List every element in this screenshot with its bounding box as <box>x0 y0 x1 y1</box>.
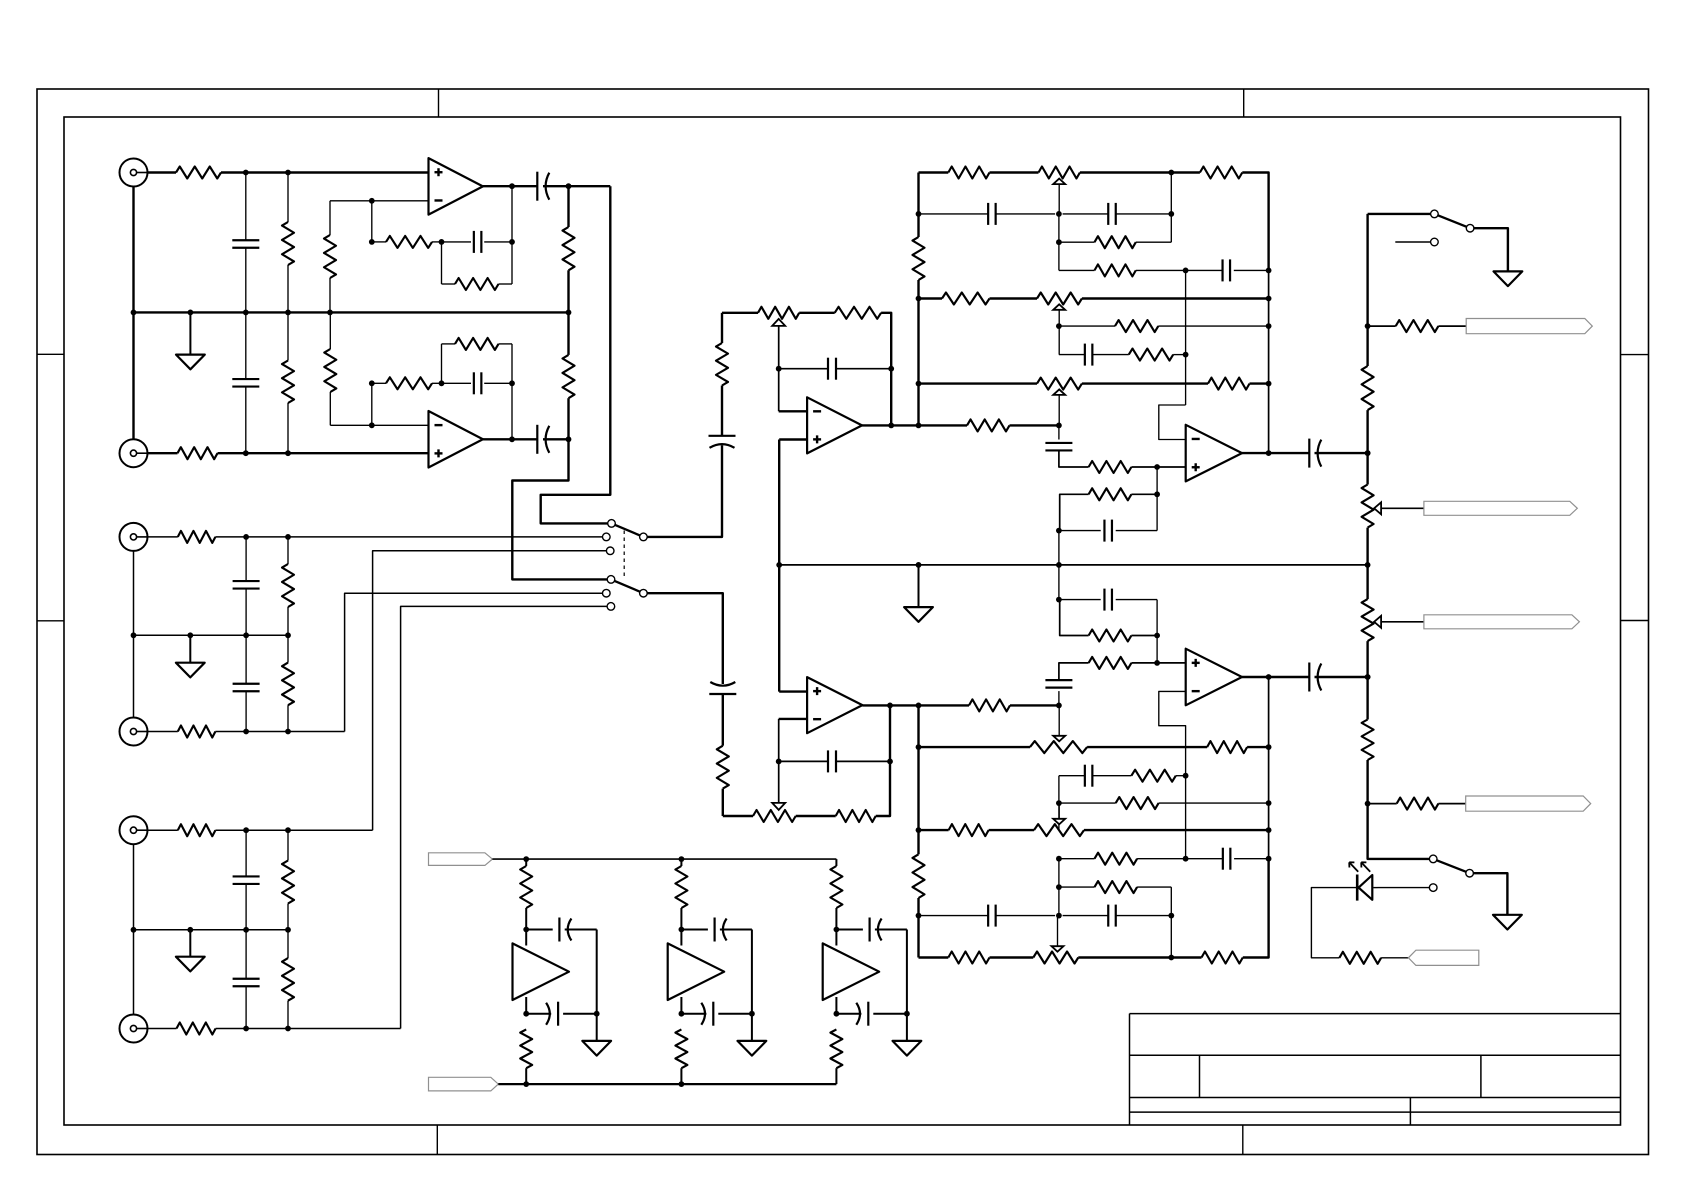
wire buffer 1 out stub <box>525 997 527 1014</box>
wire RV7 wiper stem <box>1058 803 1060 819</box>
wire U4 + column <box>1156 467 1158 531</box>
wire C14 row <box>779 760 890 762</box>
ground channel 3 <box>176 930 205 972</box>
wire R3 top <box>329 201 331 235</box>
wire C10 top <box>245 930 247 979</box>
junction dots row2 <box>1056 211 1174 217</box>
potentiometer RV1 <box>758 307 799 319</box>
junction dot row1 at B <box>1168 170 1174 176</box>
LED D1 triangle <box>1359 875 1373 900</box>
wire R23 to EQ <box>1010 424 1059 426</box>
wire R28 to RV3 <box>990 171 1039 173</box>
wiper RV4 <box>1053 304 1065 310</box>
border zone tick top-right <box>1243 89 1245 117</box>
junction dot buffer 1 in <box>523 927 529 933</box>
wire C9 bottom <box>245 884 247 930</box>
wire SW1 B common to C13 <box>647 593 723 684</box>
junction dot out1 top <box>566 183 572 189</box>
capacitor C29 polarized <box>559 918 571 942</box>
wire U6 output row <box>862 704 969 706</box>
junction dot buffer 3 in <box>834 927 840 933</box>
EQ A column caps lower <box>1058 691 1060 705</box>
wire ch1 lower route to switch <box>512 439 607 579</box>
wire buffer 3 in stub <box>835 930 837 946</box>
resistor R55 buffer 2 bottom <box>675 1029 687 1068</box>
switch SW1 section B throw 3 contact <box>607 603 615 611</box>
wire R12 stubs <box>442 343 513 345</box>
wire SW2 common to ground <box>1474 228 1508 271</box>
wire U3 + input <box>779 438 807 440</box>
wire buffer 3 out stub <box>835 997 837 1014</box>
capacitor C3 polarized <box>537 172 549 201</box>
junction dots node IN1- <box>243 450 291 456</box>
wire C3 to node <box>543 185 610 187</box>
wire RV9 wiper to flag <box>1381 507 1424 509</box>
wire C7 top <box>245 537 247 581</box>
wire C22 to row <box>1059 663 1089 680</box>
wire R50 row <box>1368 803 1397 805</box>
junction dots row5 <box>1056 296 1272 329</box>
net label flag output 3 <box>1424 615 1580 629</box>
junction dot U4 + node <box>1154 464 1160 470</box>
wire U1 - to feedback <box>371 201 373 242</box>
resistor R25 <box>836 810 876 822</box>
junction dot C20 left <box>1056 528 1062 534</box>
resistor R13 <box>178 531 216 543</box>
junction dots U5 output <box>1266 674 1371 680</box>
wire R40 to column <box>1131 635 1157 637</box>
resistor R8 <box>178 447 218 459</box>
wire R7 link bottom <box>567 398 569 439</box>
wire RV8 wiper stem <box>1057 916 1059 947</box>
wire U1 fb vertical right <box>511 186 513 284</box>
capacitor C26 <box>988 905 996 927</box>
title block column divider left <box>1199 1055 1201 1097</box>
wire R9 bottom <box>287 403 289 453</box>
wire U1 fb cap row <box>442 241 513 243</box>
switch SW1 section A throw 2 contact <box>603 533 611 541</box>
wire R20 top <box>287 930 289 958</box>
wire U5 + fb row <box>1060 600 1089 636</box>
junction dots row9 <box>1056 703 1272 750</box>
wire R45 to RV8 <box>990 956 1034 958</box>
wire buffer cell 1 R to cap node <box>525 908 527 930</box>
wiper RV10 <box>1374 616 1381 628</box>
wire buffer cell 1 top <box>525 859 527 866</box>
resistor R12 <box>455 338 499 350</box>
wire J1 shield column <box>132 187 134 313</box>
LED D1 emission arrow 2 <box>1361 862 1370 872</box>
wire R21 to pot row <box>721 313 723 343</box>
wire EQ row1 left <box>919 171 949 173</box>
border zone tick bottom-left <box>436 1125 438 1155</box>
wire EQ row14 <box>1059 886 1171 888</box>
wire J6 riser to switch <box>401 606 607 1028</box>
junction dot row6 at D <box>1266 323 1272 329</box>
capacitor C19 <box>1045 443 1072 451</box>
capacitor C2 <box>474 231 482 253</box>
junction dots row11 <box>1056 800 1272 806</box>
resistor R54 buffer 2 top <box>675 866 687 908</box>
capacitor C34 polarized <box>856 1002 868 1026</box>
wire C25 left stub <box>1186 858 1223 860</box>
wire pot RV2 row left <box>723 815 753 817</box>
wire main col seg5 <box>1368 760 1430 859</box>
wire buffer cell 3 R to cap node <box>835 908 837 930</box>
wire C9 top <box>245 830 247 876</box>
wire LED cathode route <box>1311 888 1357 958</box>
wire EQ row13 <box>1059 858 1269 860</box>
connector J1 <box>120 159 148 187</box>
wire RV5 wiper stem <box>1058 395 1060 426</box>
junction dots U1 fb node A <box>439 239 515 245</box>
wire EQ row9 pot <box>919 746 1269 748</box>
op-amp U6 <box>807 677 862 733</box>
connector J4 <box>120 718 148 746</box>
resistor R56 buffer 3 top <box>830 866 842 908</box>
capacitor C23 <box>1104 589 1112 611</box>
wire buffer 2 cap row top <box>681 929 752 931</box>
wire C8 bottom <box>245 691 247 731</box>
wire main col to SW2 <box>1368 213 1431 215</box>
capacitor C30 polarized <box>546 1002 558 1026</box>
junction dot mid bus left <box>776 562 782 568</box>
wire J5 shield column <box>133 844 135 930</box>
channel 3 mid bus <box>134 929 289 931</box>
junction dots J6 row <box>243 1026 291 1032</box>
wire C1 top <box>245 173 247 241</box>
junction dot buffer 2 in <box>679 927 685 933</box>
junction dots channel 3 mid bus <box>131 927 291 933</box>
junction dots J4 row <box>243 729 291 735</box>
switch SW2 blade <box>1434 214 1470 228</box>
resistor R42 <box>1116 797 1159 809</box>
resistor R27 <box>913 237 925 280</box>
wire U5 + column <box>1156 600 1158 663</box>
wire SW1 A common to C11 <box>647 445 722 537</box>
title block outline <box>1130 1014 1621 1125</box>
switch SW1 gang dashed link <box>623 531 625 578</box>
resistor R4 <box>386 236 432 248</box>
wire R6 link bottom <box>567 270 569 312</box>
wire buffer 1 cap row top <box>526 929 597 931</box>
channel 1 mid bus <box>134 311 569 313</box>
wire U4 + fb row <box>1060 494 1089 530</box>
wire C28 to main column <box>1315 676 1368 678</box>
resistor R14 <box>282 564 294 607</box>
switch SW3 stub contact <box>1429 884 1437 892</box>
wiper RV8 <box>1052 946 1064 952</box>
wire RV1 wiper stem <box>778 326 780 411</box>
LED D1 cathode bar <box>1356 875 1359 901</box>
EQ B column lower <box>1170 887 1172 957</box>
switch SW1 section A blade <box>612 523 644 537</box>
border zone tick right-lower <box>1621 620 1649 622</box>
resistor R38 <box>1207 741 1247 753</box>
resistor R53 buffer 1 bottom <box>520 1029 532 1068</box>
capacitor C31 polarized <box>715 918 727 942</box>
U5 output row <box>1242 676 1309 678</box>
wire R49 to flag <box>1438 325 1466 327</box>
junction dot main col out <box>1365 801 1371 807</box>
wire buffer 1 right column <box>596 930 598 1014</box>
wire R11 stubs <box>372 382 442 384</box>
wire U3 + column <box>778 440 780 692</box>
wire U4 - jog <box>1159 405 1186 440</box>
wire buffer 2 out stub <box>680 997 682 1014</box>
capacitor C18 <box>1085 344 1093 366</box>
wire C12 row <box>779 368 892 370</box>
wire U2 output <box>483 438 537 440</box>
wire buffer cell 3 top <box>835 859 837 866</box>
switch SW1 section B throw 1 contact <box>607 576 615 584</box>
wire R6 link top <box>567 186 569 227</box>
capacitor C7 <box>233 581 260 589</box>
switch SW2 stub contact <box>1431 238 1439 246</box>
net label flag buffer bottom rail <box>429 1077 499 1091</box>
wire C19 to row <box>1059 450 1089 467</box>
net label flag output 4 <box>1466 796 1591 811</box>
mid reference bus <box>779 564 1367 566</box>
wire EQ row11 <box>1059 802 1269 804</box>
wiper RV6 <box>1053 736 1065 742</box>
resistor R34 <box>1208 378 1250 390</box>
junction dots channel 2 mid bus <box>131 632 291 638</box>
wire C8 top <box>245 635 247 684</box>
wire EQ row6 <box>1059 325 1269 327</box>
wiper RV9 <box>1374 502 1381 514</box>
capacitor C6 polarized <box>537 425 549 454</box>
net label flag LED supply <box>1408 950 1478 965</box>
wire U6 + input <box>779 690 807 692</box>
resistor R41 <box>1131 770 1175 782</box>
resistor R6 <box>563 227 575 270</box>
switch SW2 common contact <box>1466 224 1474 232</box>
junction dot C12 right <box>888 366 894 372</box>
ground buffer 1 <box>582 1014 611 1056</box>
wire buffer 3 right column <box>906 930 908 1014</box>
EQ left column upper <box>917 173 919 426</box>
junction dots buffer bottom rail <box>523 1081 684 1087</box>
resistor R18 <box>282 861 294 904</box>
connector J6 <box>120 1015 148 1043</box>
wire J2 to R8 <box>148 452 178 454</box>
border zone tick bottom-right <box>1242 1125 1244 1155</box>
wire R9 top <box>287 312 289 360</box>
potentiometer RV9 vertical <box>1362 485 1374 528</box>
border zone tick right-upper <box>1621 354 1649 356</box>
wire J6 shield column <box>133 930 135 1015</box>
resistor R5 <box>455 278 499 290</box>
ground SW3 <box>1493 915 1522 930</box>
wire buffer 3 cap row bottom <box>836 1013 907 1015</box>
EQ left column lower <box>917 705 919 957</box>
buffer top rail <box>492 858 836 860</box>
wire U2 - input <box>330 424 428 426</box>
EQ A column to bus <box>1058 531 1060 600</box>
wire R4 stubs <box>372 241 442 243</box>
wire R36 to column <box>1131 493 1157 495</box>
buffer amplifier B1 <box>513 943 570 1000</box>
wire EQ row3 <box>1059 241 1171 243</box>
connector J3 <box>120 523 148 551</box>
potentiometer RV6 <box>1030 741 1087 753</box>
junction dot out1 bottom <box>566 436 572 442</box>
wire R14 bottom <box>287 607 289 635</box>
switch SW3 throw contact <box>1429 855 1437 863</box>
capacitor C12 <box>828 358 836 380</box>
wire buffer 2 in stub <box>680 930 682 946</box>
junction dot row10 at C <box>1183 773 1189 779</box>
resistor R23 <box>967 419 1010 431</box>
wire J4 to R15 <box>148 731 178 733</box>
resistor R15 <box>178 726 216 738</box>
wire RV2 row to R25 <box>796 815 836 817</box>
wire main col seg2 <box>1366 410 1368 484</box>
wire pot RV1 row left <box>722 312 758 314</box>
junction dots row8 <box>1056 381 1272 429</box>
wire U5 - jog <box>1159 691 1186 858</box>
wire R25 to output column <box>876 705 890 816</box>
capacitor C5 <box>474 372 482 394</box>
resistor R37 <box>913 854 925 898</box>
sheet inner border frame <box>64 117 1621 1125</box>
capacitor C9 <box>233 876 260 884</box>
capacitor C20 <box>1104 520 1112 542</box>
resistor R49 <box>1396 320 1439 332</box>
wire J3 to R13 <box>148 536 178 538</box>
wire RV3 to B column <box>1080 171 1171 173</box>
ground EQ mid <box>904 565 933 622</box>
capacitor C25 <box>1223 848 1231 870</box>
channel 2 mid bus <box>134 634 289 636</box>
op-amp U5 <box>1186 649 1242 706</box>
ground channel 1 <box>176 312 205 369</box>
potentiometer RV8 <box>1033 952 1078 964</box>
junction dots J3 row <box>243 534 291 540</box>
junction dot RV1 wiper node <box>776 366 782 372</box>
wire RV8 to B column <box>1078 956 1171 958</box>
buffer bottom rail <box>498 1083 836 1085</box>
capacitor C17 <box>1223 259 1231 281</box>
junction dots EQ left column upper <box>916 211 922 387</box>
connector J5 <box>120 816 148 844</box>
resistor R46 <box>1202 952 1243 964</box>
wire row1 R29 stubs <box>1171 173 1268 271</box>
wire buffer cell 1 bottom <box>525 1068 527 1084</box>
resistor R47 <box>1362 366 1374 410</box>
connector J2 <box>120 439 148 467</box>
junction dot U1 fb left <box>369 239 375 245</box>
wire EQ row2 caps <box>919 213 1172 215</box>
wire main col seg3 <box>1366 528 1368 600</box>
wire J4 shield column <box>133 635 135 717</box>
switch SW2 stub wire <box>1395 241 1430 243</box>
wire buffer cell 2 R to cap node <box>680 908 682 930</box>
title block row line 1 <box>1130 1054 1621 1056</box>
resistor R26 <box>969 699 1010 711</box>
wire J6 row to riser <box>216 1028 401 1030</box>
resistor R56 <box>949 824 989 836</box>
wire J5 to R17 <box>148 829 178 831</box>
wire R2 bottom <box>287 265 289 312</box>
wire R35 to U4 + <box>1131 466 1185 468</box>
resistor R7 <box>563 355 575 398</box>
border zone tick top-left <box>438 89 440 117</box>
wire EQ row12 pot <box>919 829 1269 831</box>
wire buffer 1 cap row bottom <box>526 1013 597 1015</box>
op-amp U3 <box>807 397 862 453</box>
junction dots U2 fb node <box>439 380 515 386</box>
switch SW1 section A common contact <box>640 533 648 541</box>
wire C4 top <box>245 312 247 379</box>
junction dot main col U5out <box>1365 674 1371 680</box>
potentiometer RV4 <box>1037 293 1082 305</box>
resistor R48 <box>1362 720 1374 761</box>
wire U3 output row <box>862 424 967 426</box>
resistor R3 <box>324 235 336 278</box>
wire J3 row to switch <box>215 536 602 538</box>
resistor R31 <box>1095 264 1136 276</box>
capacitor C22 <box>1045 680 1072 688</box>
wire U2 - to feedback <box>371 383 373 425</box>
ground channel 2 <box>176 635 205 677</box>
resistor R30 <box>1095 236 1136 248</box>
wire RV1 row to R22 <box>799 312 835 314</box>
net label flag output 1 <box>1466 319 1592 334</box>
ground SW2 <box>1494 271 1523 286</box>
EQ D column upper <box>1268 270 1270 453</box>
wire RV3 wiper stem <box>1058 184 1060 214</box>
main output column top <box>1366 214 1368 366</box>
junction dot row3 at A <box>1056 239 1062 245</box>
resistor R35 <box>1089 461 1132 473</box>
capacitor C16 <box>1108 203 1116 225</box>
junction dot bus at L <box>916 562 922 568</box>
resistor R32 <box>1115 320 1158 332</box>
potentiometer RV7 <box>1034 824 1084 836</box>
resistor R51 <box>1339 952 1381 964</box>
EQ D column lower <box>1268 677 1270 859</box>
wire C13 to R24 <box>722 694 724 746</box>
switch SW1 section B throw 2 contact <box>603 589 611 597</box>
junction dots row4 <box>1183 268 1272 274</box>
junction dots J5 row <box>243 827 291 833</box>
junction dot row16 at B <box>1168 955 1174 961</box>
junction dot U1 output <box>509 183 515 189</box>
wire C21 to main column <box>1315 452 1368 454</box>
wire J2 shield column <box>132 312 134 439</box>
wire J6 to R19 <box>148 1028 177 1030</box>
resistor R1 <box>176 167 221 179</box>
wire C6 to node <box>543 438 569 440</box>
title block row line 3 <box>1130 1111 1621 1113</box>
resistor R39 <box>1089 657 1132 669</box>
junction dots R36 right <box>1154 491 1160 497</box>
wire R3 bottom <box>329 278 331 312</box>
wire RV4 wiper stem <box>1058 310 1060 355</box>
wire R39 to U5 + <box>1131 662 1185 664</box>
resistor R2 <box>282 222 294 265</box>
resistor R28 <box>948 167 989 179</box>
resistor R52 buffer 1 top <box>520 866 532 908</box>
wire R26 to EQ <box>1010 704 1059 706</box>
wire R2 top <box>287 173 289 223</box>
wire J5 row to riser <box>215 829 372 831</box>
border zone tick left-lower <box>37 620 64 622</box>
resistor R11 <box>386 377 432 389</box>
resistor R10 <box>324 349 336 392</box>
